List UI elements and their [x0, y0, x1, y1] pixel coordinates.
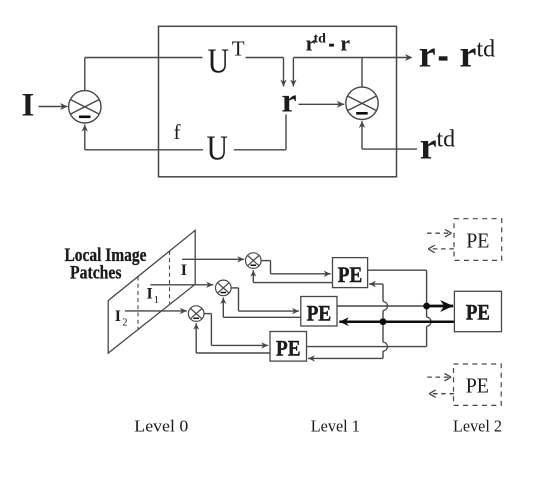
svg-text:td: td [437, 127, 456, 153]
svg-text:Patches: Patches [70, 263, 122, 283]
svg-text:PE: PE [466, 374, 489, 398]
svg-text:I: I [181, 262, 187, 279]
svg-text:PE: PE [466, 228, 489, 252]
svg-text:PE: PE [338, 262, 363, 287]
svg-text:U: U [207, 128, 229, 167]
svg-text:r: r [420, 125, 437, 167]
svg-text:1: 1 [154, 295, 159, 306]
svg-text:r: r [282, 83, 297, 120]
svg-text:T: T [232, 36, 245, 60]
svg-text:Level 0: Level 0 [134, 417, 188, 436]
svg-text:I: I [22, 88, 35, 124]
svg-text:I: I [147, 286, 153, 303]
svg-text:td: td [314, 32, 327, 47]
svg-text:I: I [115, 308, 121, 325]
svg-text:PE: PE [466, 300, 490, 325]
svg-text:f: f [174, 120, 181, 144]
svg-text:PE: PE [276, 336, 301, 361]
svg-text:U: U [208, 42, 230, 81]
svg-text:r: r [340, 30, 350, 55]
svg-text:PE: PE [307, 300, 332, 325]
svg-text:td: td [477, 36, 496, 62]
svg-text:Level 2: Level 2 [453, 417, 502, 436]
svg-text:Level 1: Level 1 [311, 417, 360, 436]
svg-text:2: 2 [122, 317, 127, 328]
svg-text:r: r [460, 34, 477, 76]
svg-text:r: r [419, 34, 436, 76]
